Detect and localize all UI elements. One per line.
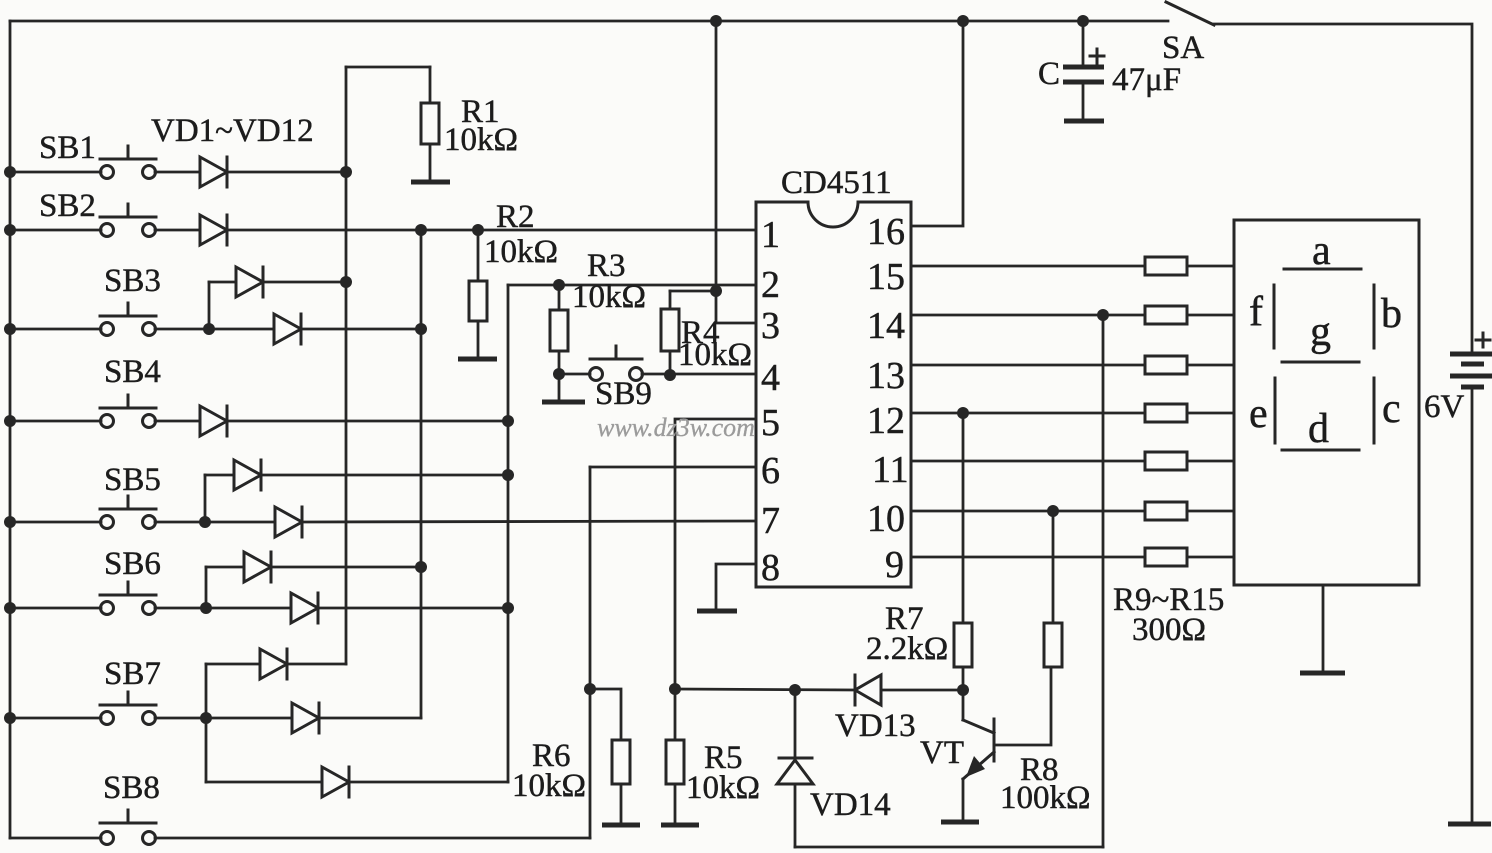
resistor R15 <box>1145 548 1187 566</box>
junction R3 / SB9 <box>553 368 565 380</box>
wire VD8 to bus B <box>271 566 421 569</box>
svg-text:d: d <box>1308 406 1329 452</box>
wire VD7 to IC pin7 <box>302 521 756 522</box>
svg-text:2: 2 <box>761 264 780 306</box>
junction VD4 / bus B <box>415 323 427 335</box>
svg-text:12: 12 <box>867 400 905 442</box>
diode VD3 <box>236 267 263 297</box>
wire VD3 to bus A <box>263 281 347 284</box>
wire LE node row <box>675 689 855 690</box>
junction top rail / LT riser <box>710 15 722 27</box>
resistor R14 <box>1145 502 1187 520</box>
wire SB2 row to diode <box>155 229 200 232</box>
pushbutton SB4 <box>100 354 161 428</box>
wire from SA to right rail <box>1214 24 1472 353</box>
pushbutton SB2 <box>39 188 156 237</box>
svg-text:13: 13 <box>867 355 905 397</box>
svg-text:10kΩ: 10kΩ <box>444 122 518 158</box>
junction LE row / VD14 <box>789 684 801 696</box>
wire bus C top to pin2 row <box>508 284 756 287</box>
wire row9 right <box>1187 556 1234 559</box>
wire SB1 row left <box>10 171 101 174</box>
svg-text:10kΩ: 10kΩ <box>678 337 752 373</box>
diode VD10 <box>260 649 287 679</box>
junction collector node <box>957 684 969 696</box>
junction top rail / pin16 riser <box>957 15 969 27</box>
diode VD13 <box>835 675 916 744</box>
wire bus D vertical <box>589 467 592 838</box>
svg-text:300Ω: 300Ω <box>1132 612 1206 648</box>
svg-text:VD14: VD14 <box>810 787 891 823</box>
wire SB6 upper branch <box>206 566 244 569</box>
svg-text:10kΩ: 10kΩ <box>686 770 760 806</box>
wire SB5 riser <box>204 475 207 522</box>
svg-text:SA: SA <box>1162 30 1204 66</box>
pushbutton SB5 <box>100 462 161 529</box>
junction SB5 riser <box>199 516 211 528</box>
junction SB7 riser <box>200 712 212 724</box>
junction left rail SB4 <box>4 415 16 427</box>
svg-text:7: 7 <box>761 500 780 542</box>
battery GB 6V <box>1424 333 1492 425</box>
resistor R3 10k <box>550 248 646 399</box>
wire SB6 row left <box>10 607 101 610</box>
wire SB8 row left <box>10 837 101 840</box>
resistor R6 10k <box>512 689 630 823</box>
wire SB4 row to diode <box>155 420 200 423</box>
wire SB6 row to riser <box>155 607 206 610</box>
junction left rail SB6 <box>4 602 16 614</box>
svg-text:VD1~VD12: VD1~VD12 <box>151 113 314 149</box>
svg-text:5: 5 <box>761 402 780 444</box>
junction SB6 riser <box>200 602 212 614</box>
diode VD8 <box>244 552 271 582</box>
wire bus C vertical <box>507 285 510 782</box>
wire SB1 row to diode <box>155 171 200 174</box>
junction R3 / pin2 row <box>553 279 565 291</box>
wire VD11 to bus B <box>319 717 421 720</box>
junction SB4 / bus C <box>502 415 514 427</box>
junction SB2 / R2 <box>472 224 484 236</box>
svg-text:SB6: SB6 <box>104 546 161 582</box>
svg-text:47μF: 47μF <box>1112 62 1181 98</box>
wire VD5 to bus C <box>227 420 508 423</box>
resistor R10 <box>1145 306 1187 324</box>
wire VD2 to IC pin1 <box>227 229 756 232</box>
display DS1 7-segment <box>1234 220 1419 585</box>
wire SB7 lower branch <box>206 781 322 784</box>
ground R6 <box>602 823 640 828</box>
svg-text:SB7: SB7 <box>104 656 161 692</box>
svg-text:SB8: SB8 <box>103 770 160 806</box>
junction SB3 riser <box>203 323 215 335</box>
wire SB8 row to bus D <box>155 837 590 840</box>
wire row13 left <box>911 364 1145 367</box>
wire SB7 row to riser <box>155 717 206 720</box>
wire LT riser to pin3 <box>716 21 756 323</box>
junction VD6 / bus C <box>502 469 514 481</box>
switch SA <box>1162 2 1214 66</box>
wire SB3 row left <box>10 328 101 331</box>
wire VD10 to bus A <box>287 663 346 666</box>
wire SB3 upper branch <box>209 281 236 284</box>
svg-text:SB4: SB4 <box>104 354 161 390</box>
junction left rail SB1 <box>4 166 16 178</box>
wire left rail <box>9 21 12 838</box>
wire SB7 row to middle diode <box>206 717 292 720</box>
wire SB4 row left <box>10 420 101 423</box>
diode VD14 <box>777 690 891 847</box>
svg-text:g: g <box>1310 309 1331 355</box>
wire row12 right <box>1187 412 1234 415</box>
junction VD8 / bus B <box>415 561 427 573</box>
svg-text:CD4511: CD4511 <box>781 165 892 201</box>
svg-text:SB1: SB1 <box>39 130 96 166</box>
diode VD11 <box>292 703 319 733</box>
junction R7 / row12 <box>957 407 969 419</box>
diode VD9 <box>291 593 318 623</box>
resistor R1 10k <box>421 67 518 180</box>
svg-text:11: 11 <box>872 449 909 491</box>
wire SB2 row left <box>10 229 101 232</box>
wire SB5 row to lower diode <box>205 521 275 524</box>
svg-text:15: 15 <box>867 256 905 298</box>
svg-text:VT: VT <box>920 735 964 771</box>
capacitor C 47uF <box>1038 21 1181 119</box>
svg-text:16: 16 <box>867 211 905 253</box>
svg-text:10kΩ: 10kΩ <box>512 768 586 804</box>
junction left rail SB7 <box>4 712 16 724</box>
diode VD7 <box>275 507 302 537</box>
ground R3 <box>542 400 585 405</box>
wire row11 left <box>911 460 1145 463</box>
wire VD12 to bus C <box>349 781 508 784</box>
wire row15 right <box>1187 265 1234 268</box>
wire row15 left <box>911 265 1145 268</box>
pushbutton SB6 <box>100 546 161 615</box>
svg-text:10kΩ: 10kΩ <box>572 279 646 315</box>
label R9~R15 300 ohm <box>1113 582 1224 648</box>
diode VD2 <box>200 215 227 245</box>
svg-text:10: 10 <box>867 498 905 540</box>
resistor R7 2.2k <box>866 413 972 690</box>
diode VD4 <box>274 314 301 344</box>
svg-text:10kΩ: 10kΩ <box>484 234 558 270</box>
junction R4 / pin4 row <box>664 369 676 381</box>
svg-text:b: b <box>1381 291 1402 337</box>
svg-text:6V: 6V <box>1424 389 1465 425</box>
junction VD3 / bus A <box>340 276 352 288</box>
wire SB9 right to IC pin4 <box>642 373 756 376</box>
wire SB5 row left <box>10 521 101 524</box>
wire VD4 to bus B <box>301 328 421 331</box>
junction R8 / row10 <box>1047 505 1059 517</box>
wire bus A vertical <box>345 67 348 664</box>
wire row10 right <box>1187 510 1234 513</box>
ground R5 <box>661 823 699 828</box>
wire SB7 row left <box>10 717 101 720</box>
IC U1 CD4511 body <box>756 165 911 587</box>
junction bus pin14 / row14 <box>1097 309 1109 321</box>
wire bus A top to R1 <box>346 66 430 69</box>
pushbutton SB3 <box>100 263 161 336</box>
svg-text:4: 4 <box>761 357 780 399</box>
wire VD1 to bus A <box>227 171 346 174</box>
svg-text:e: e <box>1249 391 1268 437</box>
wire row11 right <box>1187 460 1234 463</box>
wire row14 left <box>911 314 1145 317</box>
junction left rail SB2 <box>4 224 16 236</box>
ground IC pin8 <box>697 609 737 614</box>
wire SB3 riser <box>208 282 211 329</box>
ground R1 <box>411 180 450 185</box>
svg-text:C: C <box>1038 56 1060 92</box>
ground display <box>1300 671 1345 676</box>
wire SB9 left <box>559 373 590 376</box>
ground R2 <box>458 357 497 362</box>
wire SB7 riser <box>205 664 208 782</box>
resistor R12 <box>1145 404 1187 422</box>
junction left rail SB3 <box>4 323 16 335</box>
wire row14 right <box>1187 314 1234 317</box>
junction left rail SB5 <box>4 516 16 528</box>
pushbutton SB7 <box>100 656 161 725</box>
diode VD1 <box>200 157 227 187</box>
wire battery negative to bottom <box>1471 389 1474 823</box>
resistor R4 10k <box>661 291 752 375</box>
ground capacitor C <box>1064 119 1104 124</box>
wire SB3 row to lower diode <box>209 328 274 331</box>
wire IC pin5 riser <box>675 419 756 689</box>
transistor VT <box>920 690 994 820</box>
svg-text:9: 9 <box>885 544 904 586</box>
wire VD9 to bus C <box>318 607 508 610</box>
wire display common to ground <box>1322 585 1325 671</box>
wire pin16 to top rail <box>911 21 963 226</box>
junction R4 / LT riser <box>710 285 722 297</box>
wire row9 left <box>911 556 1145 559</box>
pushbutton SB9 <box>590 346 652 412</box>
wire VD6 to bus C <box>261 474 508 477</box>
pushbutton SB8 <box>100 770 160 845</box>
svg-text:www.dz3w.com: www.dz3w.com <box>597 413 755 442</box>
svg-text:100kΩ: 100kΩ <box>1000 780 1091 816</box>
svg-text:1: 1 <box>761 214 780 256</box>
wire VD13 to collector node <box>881 689 963 692</box>
wire SB6 riser <box>205 567 208 608</box>
wire SB6 row to lower diode <box>206 607 291 610</box>
svg-text:8: 8 <box>761 547 780 589</box>
diode VD5 <box>200 406 227 436</box>
junction bus D / R6 <box>584 683 596 695</box>
wire row13 right <box>1187 364 1234 367</box>
wire IC pin8 to ground <box>716 564 756 609</box>
junction LE riser / R5 <box>669 683 681 695</box>
resistor R11 <box>1145 356 1187 374</box>
svg-text:a: a <box>1312 228 1331 274</box>
svg-text:14: 14 <box>867 305 905 347</box>
svg-text:2.2kΩ: 2.2kΩ <box>866 631 948 667</box>
wire top supply rail <box>10 20 1168 23</box>
resistor R9 <box>1145 257 1187 275</box>
svg-text:f: f <box>1249 289 1263 335</box>
wire bus pin14 vertical <box>1102 315 1105 847</box>
ground VT emitter <box>941 820 979 825</box>
pushbutton SB1 <box>39 130 156 179</box>
svg-text:SB2: SB2 <box>39 188 96 224</box>
resistor R2 10k <box>469 199 558 357</box>
junction SB2 / bus B <box>415 224 427 236</box>
svg-text:SB5: SB5 <box>104 462 161 498</box>
svg-text:R2: R2 <box>496 199 535 235</box>
wire row10 left <box>911 510 1145 513</box>
svg-text:SB9: SB9 <box>595 376 652 412</box>
resistor R13 <box>1145 452 1187 470</box>
resistor R8 100k <box>1000 511 1091 816</box>
wire SB3 row to riser <box>155 328 209 331</box>
wire SB5 upper branch <box>205 474 234 477</box>
svg-text:3: 3 <box>761 305 780 347</box>
wire SB7 upper branch <box>206 663 260 666</box>
diode VD12 <box>322 767 349 797</box>
junction SB1 / bus A <box>340 166 352 178</box>
junction top rail / capacitor C <box>1077 15 1089 27</box>
resistor R5 10k <box>666 689 760 823</box>
svg-text:6: 6 <box>761 450 780 492</box>
wire R4 to LT riser <box>670 290 716 293</box>
junction VD9 / bus C <box>502 602 514 614</box>
wire VD14 bottom to bus pin14 <box>795 846 1103 849</box>
wire bus B vertical <box>420 230 423 718</box>
svg-text:SB3: SB3 <box>104 263 161 299</box>
wire bus D to IC pin6 <box>590 466 756 469</box>
wire SB5 row to riser <box>155 521 205 524</box>
wire row12 left <box>911 412 1145 415</box>
diode VD6 <box>234 460 261 490</box>
svg-text:c: c <box>1382 386 1401 432</box>
svg-text:VD13: VD13 <box>835 708 916 744</box>
battery negative terminal bar <box>1448 822 1491 827</box>
wire VT base to R8 <box>994 667 1051 745</box>
